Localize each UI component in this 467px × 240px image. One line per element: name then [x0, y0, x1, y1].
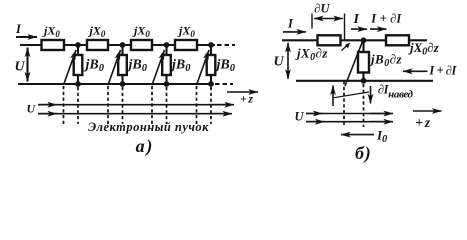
- current arrow I left (b): [283, 31, 306, 33]
- wire: bottom line of ladder (a): [18, 83, 213, 85]
- bottom junction dot 1 (a): [75, 81, 81, 87]
- wire: top line (b): [282, 39, 427, 41]
- induced-current diagonal arrow into node 3 (a): [152, 50, 165, 85]
- leader line joining the two induced arrows (b): [334, 92, 369, 98]
- resistor jX0dz right (b): [386, 35, 409, 45]
- dashed coupling wire below diagonal 1 (a): [63, 86, 65, 124]
- svg-text:jX0: jX0: [88, 24, 106, 40]
- current arrow I at node (b): [351, 28, 367, 30]
- dU dimension ticks (b): [311, 14, 313, 29]
- bottom junction dot 3 (a): [164, 81, 170, 87]
- svg-text:+z: +z: [415, 115, 431, 130]
- svg-text:U: U: [274, 55, 285, 70]
- svg-text:I + ∂I: I + ∂I: [370, 12, 402, 26]
- svg-text:I0: I0: [376, 128, 387, 146]
- svg-text:jX0: jX0: [132, 24, 150, 40]
- +z axis arrow (b): [413, 110, 442, 112]
- node dot (b): [361, 37, 367, 43]
- induced-current diagonal arrow into node 1 (a): [64, 50, 77, 85]
- bottom junction dot 4 (a): [208, 81, 214, 87]
- induced current down arrow (b): [370, 86, 372, 104]
- dashed coupling wire below diagonal 3 (a): [151, 86, 153, 124]
- beam lower line right arrow (b): [370, 121, 393, 123]
- svg-text:U: U: [27, 101, 37, 115]
- beam lower line left arrow (a): [38, 113, 57, 115]
- shunt branch 2: stub, resistor jB0, stub (a): [118, 45, 127, 84]
- small arrow beside diagonal (b): [342, 45, 348, 51]
- +z axis arrow (a): [227, 91, 258, 93]
- dashed coupling wire below shunt 4 (a): [210, 87, 212, 124]
- current arrow I (a): [16, 36, 37, 38]
- resistor jX0 #1 (a): [42, 40, 65, 50]
- svg-text:jB0∂z: jB0∂z: [369, 52, 403, 70]
- electron beam upper line (a): [38, 104, 232, 106]
- svg-text:I + ∂I: I + ∂I: [428, 64, 457, 78]
- svg-text:jX0: jX0: [42, 24, 60, 40]
- svg-text:б): б): [355, 143, 371, 164]
- beam lower line right arrow (a): [208, 113, 232, 115]
- shunt branch: stub, resistor jB0dz, stub (b): [358, 40, 369, 81]
- svg-text:∂Iнавед: ∂Iнавед: [378, 83, 414, 101]
- shunt branch 1: stub, resistor jB0, stub (a): [74, 45, 83, 84]
- electron beam lower line (b): [306, 121, 391, 123]
- beam upper line left arrow (b): [306, 113, 323, 115]
- dU dimension double arrow (b): [314, 18, 343, 20]
- svg-text:U: U: [295, 110, 305, 124]
- svg-text:Электронный пучок: Электронный пучок: [88, 120, 209, 134]
- dashed coupling wire below shunt 1 (a): [77, 87, 79, 124]
- electron beam lower line (a): [38, 113, 230, 115]
- beam upper line left arrow (a): [38, 104, 57, 106]
- svg-text:jX0∂z: jX0∂z: [408, 40, 440, 58]
- svg-text:jB0: jB0: [127, 58, 148, 75]
- node 2 dot (a): [120, 42, 126, 48]
- dashed coupling wire below shunt (b): [363, 84, 365, 127]
- shunt branch 4: stub, resistor jB0, stub (a): [207, 45, 216, 84]
- dashed coupling wire below diagonal (b): [343, 81, 345, 127]
- svg-text:I: I: [15, 22, 22, 36]
- wire: dashed continuation of top line (a): [217, 44, 235, 46]
- svg-text:jB0: jB0: [84, 58, 105, 75]
- electron beam upper line (b): [306, 113, 391, 115]
- node 4 dot (a): [208, 42, 214, 48]
- svg-text:jX0: jX0: [177, 24, 195, 40]
- beam upper line right arrow (b): [370, 113, 393, 115]
- svg-text:а): а): [136, 136, 153, 157]
- induced-current diagonal line into node (b): [345, 42, 363, 87]
- node 3 dot (a): [164, 42, 170, 48]
- wire: bottom line (b): [296, 80, 433, 82]
- wire: dashed continuation of bottom line (a): [215, 83, 233, 85]
- bottom junction dot 2 (a): [120, 81, 126, 87]
- dashed coupling wire below shunt 3 (a): [166, 87, 168, 124]
- resistor jX0 #4 (a): [175, 40, 197, 50]
- induced-current diagonal arrow into node 2 (a): [108, 50, 121, 85]
- voltage dimension arrow U (a): [26, 48, 28, 82]
- induced current up arrow (b): [332, 86, 334, 107]
- svg-text:jB0: jB0: [170, 58, 191, 75]
- svg-text:I: I: [353, 12, 360, 27]
- bottom junction dot (b): [361, 78, 367, 84]
- svg-text:U: U: [15, 60, 26, 75]
- dashed coupling wire below diagonal 4 (a): [196, 86, 198, 124]
- induced-current diagonal arrow into node 4 (a): [197, 50, 210, 85]
- node 1 dot (a): [75, 42, 81, 48]
- resistor jX0 #2 (a): [87, 40, 108, 50]
- lower current arrow I+dI pointing left (b): [403, 70, 428, 72]
- beam lower line left arrow (b): [306, 121, 325, 123]
- svg-text:∂U: ∂U: [314, 2, 330, 16]
- svg-text:jX0∂z: jX0∂z: [295, 46, 328, 64]
- shunt branch 3: stub, resistor jB0, stub (a): [162, 45, 171, 84]
- svg-text:jB0: jB0: [215, 58, 236, 75]
- resistor jX0 #3 (a): [131, 40, 152, 50]
- svg-text:+z: +z: [240, 92, 253, 106]
- beam current I0 arrow pointing left (b): [341, 134, 374, 136]
- beam upper line right arrow (a): [210, 104, 234, 106]
- dashed coupling wire below shunt 2 (a): [122, 87, 124, 124]
- current arrow I+dI (b): [370, 28, 387, 30]
- svg-text:I: I: [287, 17, 294, 31]
- voltage dimension arrow U (b): [287, 43, 289, 79]
- dashed coupling wire below diagonal 2 (a): [107, 86, 109, 124]
- resistor jX0dz left (b): [318, 35, 341, 45]
- wire: top line of ladder (a): [20, 44, 215, 46]
